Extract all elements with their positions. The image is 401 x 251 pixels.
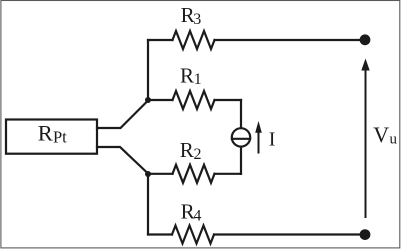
svg-text:2: 2 bbox=[194, 146, 202, 163]
resistor R2 bbox=[173, 165, 215, 183]
wire: node B to R2 left lead bbox=[148, 173, 173, 175]
svg-text:1: 1 bbox=[194, 71, 202, 88]
wire: R2 right lead bbox=[215, 173, 242, 175]
wire: vertical from node B down to R4 row bbox=[147, 174, 149, 235]
wire: down to current source top bbox=[240, 100, 242, 128]
arrow Vu (head) bbox=[361, 59, 369, 71]
resistor R4 bbox=[172, 226, 214, 244]
node B (junction dot) bbox=[145, 171, 151, 177]
svg-text:I: I bbox=[269, 128, 276, 150]
arrow Vu (shaft) bbox=[365, 69, 367, 217]
sensor box RPt bbox=[6, 120, 97, 154]
svg-text:Pt: Pt bbox=[53, 127, 67, 146]
bottom terminal dot bbox=[360, 229, 371, 240]
svg-text:3: 3 bbox=[193, 11, 201, 28]
wire: R4 left lead bbox=[148, 233, 172, 235]
wire: current source bottom down to R2 row bbox=[240, 147, 242, 174]
svg-text:u: u bbox=[390, 132, 398, 148]
wire: node A to R1 left lead bbox=[148, 99, 173, 101]
wire: vertical stub from node A up to R3 row bbox=[147, 40, 149, 99]
wire: R3 left lead bbox=[148, 39, 173, 41]
resistor R1 bbox=[173, 91, 215, 109]
arrow I (head) bbox=[255, 121, 262, 133]
top terminal dot bbox=[360, 34, 371, 45]
wire: R4 right lead to bottom terminal bbox=[214, 233, 362, 235]
wire: R1 right lead bbox=[215, 99, 242, 101]
arrow I (shaft) bbox=[258, 132, 260, 153]
svg-text:4: 4 bbox=[193, 208, 201, 225]
svg-text:R: R bbox=[180, 138, 194, 162]
svg-text:V: V bbox=[373, 122, 389, 147]
resistor R3 bbox=[173, 31, 215, 49]
svg-text:R: R bbox=[180, 63, 194, 87]
node A (junction dot) bbox=[145, 97, 151, 103]
wire: RPt top lead to node A bbox=[97, 101, 148, 129]
current source I (circle) bbox=[232, 128, 250, 146]
wire: RPt bottom lead to node B bbox=[97, 147, 148, 174]
current source I (bar) bbox=[232, 138, 250, 140]
wire: R3 right lead to top terminal bbox=[215, 39, 363, 41]
svg-text:R: R bbox=[38, 121, 53, 146]
